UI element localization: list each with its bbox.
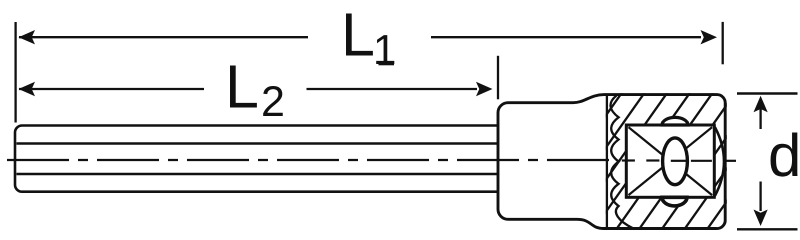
d arrow up [759,108,761,129]
dimension line L1 [19,36,308,38]
svg-text:L: L [341,1,375,69]
section hatching [502,92,800,231]
svg-text:2: 2 [261,78,285,126]
dimension d top tick [737,92,798,94]
end face arc [715,127,724,196]
socket outline: collar and head silhouette [498,95,725,229]
socket face line [606,94,608,229]
d arrow down [759,182,761,212]
hex shaft flat line lower [17,173,499,175]
foot bar of subscript 1 [379,63,395,66]
extension line left (common origin) [14,22,16,123]
extension line L2 right [497,56,499,100]
arrowhead L1 left [19,30,36,44]
ball detent arc top [662,117,688,125]
dimension line L2 [19,88,204,90]
centerline [7,159,736,162]
svg-text:L: L [225,53,259,121]
arrowhead L1 right [701,30,718,44]
hex shaft flat line upper [17,142,499,144]
recess diagonal 1 [629,127,713,195]
ball detent arc bottom [662,197,687,206]
square drive recess [626,125,714,197]
through-hole ellipse [663,138,688,185]
svg-text:d: d [768,122,800,189]
internal hex profile scalloped line [610,96,633,229]
extension line L1 right [722,22,724,64]
recess diagonal 2 [629,127,713,195]
dimension d bottom tick [737,228,798,230]
svg-text:1: 1 [373,26,396,73]
arrowhead L2 right [476,82,493,96]
hex shaft outline [15,126,499,192]
arrowhead L2 left [19,82,36,96]
